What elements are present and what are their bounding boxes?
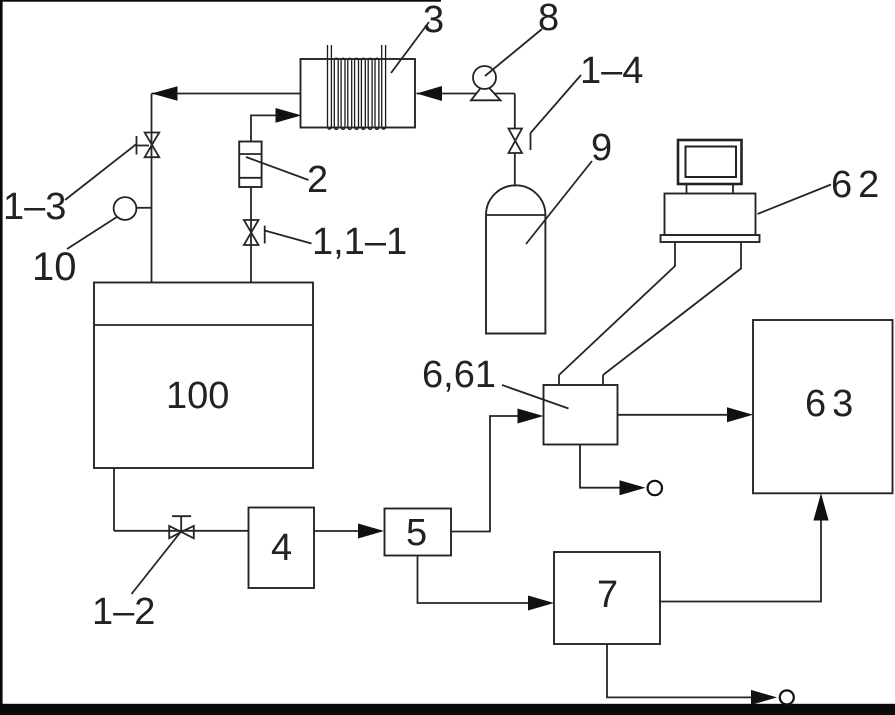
svg-text:63: 63 [805, 383, 859, 425]
wire: valve 1-4 down to cylinder 9 [514, 153, 516, 187]
vent circle for 6,61 output [648, 481, 662, 495]
bottom border bar [0, 704, 895, 715]
monitor stand leg right [732, 184, 734, 194]
monitor stand leg left [686, 184, 688, 194]
left border bar [0, 0, 3, 715]
wire: 6,61 right to box 63 [618, 414, 730, 416]
filter 2 internal line A [239, 153, 261, 155]
arrow into exchanger left side [276, 108, 302, 123]
svg-text:62: 62 [831, 164, 885, 206]
filter 2 body [239, 142, 261, 188]
svg-text:5: 5 [406, 512, 427, 554]
box 63 [753, 320, 893, 493]
tank 100 liquid level line [94, 324, 313, 326]
leader for 62 [758, 185, 832, 215]
wire: filter 2 down to tank 100 [250, 187, 252, 283]
box 7 [554, 552, 660, 644]
valve 1,1-1 [244, 220, 259, 245]
wire: top-left horizontal from exchanger to corner [152, 93, 302, 95]
box 5 [385, 509, 452, 556]
wire: box 5 bottom to box 7 [418, 556, 531, 604]
leader for 1-2 [132, 532, 182, 595]
gauge 10 [114, 197, 137, 220]
wire: tank bottom down [113, 468, 115, 531]
pump 8 triangle base [471, 83, 501, 100]
leader for 8 [485, 29, 542, 76]
leader for 6,61 [502, 385, 569, 409]
valve 1-2 [169, 516, 194, 538]
valve 1-4 [509, 129, 523, 154]
wire: box 4 to box 5 [314, 530, 360, 532]
svg-text:2: 2 [307, 159, 328, 201]
arrow at 6,61 vent [620, 480, 646, 495]
arrow into top-left corner [152, 86, 178, 101]
svg-text:8: 8 [538, 0, 559, 39]
arrow into exchanger right side [417, 86, 443, 101]
top border line [0, 0, 441, 2]
computer 62 monitor screen [686, 147, 737, 178]
wire: exchanger right to pump corner [417, 93, 515, 95]
wire: pump corner down to valve 1-4 [514, 94, 516, 130]
svg-text:3: 3 [423, 0, 444, 41]
wire: box 7 bottom output [607, 644, 752, 697]
arrow into box 7 [528, 596, 554, 611]
wire: box 7 right up into box 63 [660, 518, 821, 602]
wire: 6,61 bottom output [580, 445, 621, 488]
svg-text:4: 4 [271, 527, 292, 569]
cable right from computer to 6,61 [603, 242, 741, 375]
tank 100 [94, 283, 313, 469]
leader for 9 [526, 161, 592, 244]
computer 62 monitor outer [678, 140, 742, 184]
arrow into box 5 [358, 524, 384, 539]
leader for 1-4: diagonal and tick [531, 75, 582, 150]
svg-text:6,61: 6,61 [422, 354, 496, 396]
svg-text:1–2: 1–2 [92, 591, 155, 633]
gas cylinder 9 [486, 185, 545, 333]
arrow up into box 63 bottom [813, 493, 828, 520]
wire: bottom horizontal to box 4 [114, 530, 249, 532]
box 4 [249, 508, 315, 589]
svg-text:100: 100 [166, 375, 229, 417]
svg-text:1–3: 1–3 [3, 186, 66, 228]
heat exchanger 3 shell [301, 59, 416, 128]
cylinder 9 shoulder line [486, 214, 545, 216]
arrow into box 63 [727, 407, 753, 422]
leader for 1-3: diagonal, tick, stub [65, 136, 149, 200]
vent circle for box 7 output [780, 690, 794, 704]
svg-text:9: 9 [591, 127, 612, 169]
box 6,61 [544, 385, 618, 445]
wire: from filter 2 up and right into exchanger [251, 115, 276, 141]
svg-text:10: 10 [32, 245, 77, 289]
computer 62 body [665, 194, 756, 236]
cable left from computer to 6,61 [559, 242, 675, 375]
wire: left vertical pipe down to tank 100 [151, 94, 153, 283]
wire: stub right on top of 6,61 [602, 375, 604, 385]
arrow at box 7 vent [751, 690, 777, 705]
svg-text:1,1–1: 1,1–1 [312, 221, 407, 263]
leader for 10 [67, 217, 117, 249]
heat exchanger 3 coil [328, 45, 386, 129]
wire: box 5 right up to sensor box 6,61 [451, 416, 519, 532]
computer 62 base plate [661, 235, 760, 242]
filter 2 internal line B [239, 177, 261, 179]
svg-text:1–4: 1–4 [580, 50, 643, 92]
leader for 3 [391, 22, 429, 73]
wire: stub left on top of 6,61 [558, 375, 560, 385]
leader for 2 [246, 157, 309, 180]
wire: gauge stub [136, 207, 151, 209]
leader for 1,1-1: tick and diagonal [265, 226, 312, 244]
valve 1-3 [145, 133, 160, 158]
arrow into box 6,61 [518, 409, 544, 424]
svg-text:7: 7 [597, 574, 618, 616]
pump 8 circle [473, 66, 496, 89]
